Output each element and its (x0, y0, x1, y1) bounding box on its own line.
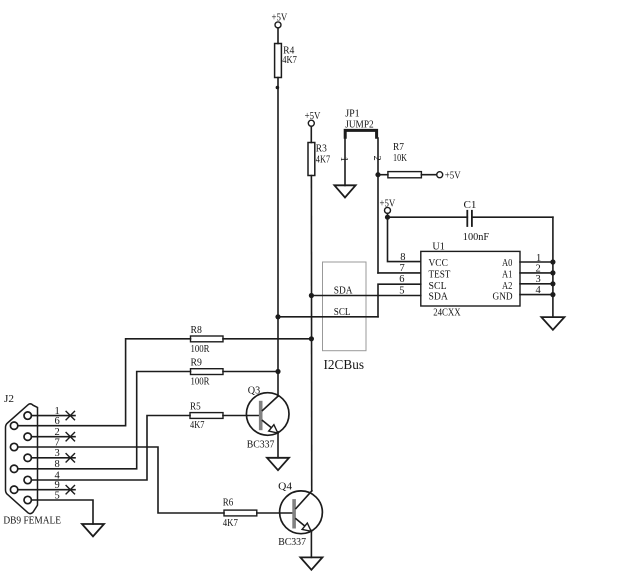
svg-text:TEST: TEST (429, 269, 451, 281)
wire JP1 pin2 down to IC TEST pin (377, 138, 379, 273)
power port +5V (above R3) (305, 110, 321, 126)
wire R9 left then down to DB9 pin8 (18, 372, 191, 469)
svg-text:U1: U1 (432, 240, 445, 252)
IC U1 24CXX body (421, 251, 520, 306)
svg-text:BC337: BC337 (247, 439, 275, 451)
pin 1 pad (J2) (24, 412, 31, 419)
ground (Q3 emitter) (267, 458, 289, 470)
wire rail to C1 left plate (388, 216, 468, 218)
wire pin5 to ground (31, 500, 93, 524)
ground (under JP1) (334, 185, 355, 197)
svg-text:6: 6 (55, 416, 60, 427)
wire R6 left then up to DB9 pin7 (18, 447, 224, 513)
wire +5V stem to rail (387, 213, 389, 217)
transistor Q4 (BC337) (280, 491, 323, 534)
node SCL junction (R4 line / SCL bus) (275, 314, 280, 319)
node A1 junction (550, 270, 555, 275)
wire Q4 emitter to ground (310, 530, 312, 557)
I2CBus annotation box (323, 262, 367, 351)
svg-text:8: 8 (400, 252, 405, 263)
resistor R3 (308, 143, 315, 176)
svg-text:R5: R5 (190, 401, 201, 413)
wire R6 right to Q4 base (257, 512, 292, 514)
pin 2 pad (J2) (24, 433, 31, 440)
wire Q3 emitter to ground (277, 432, 279, 458)
wire right ground rail vertical (552, 217, 554, 317)
no-connect X pin2 (66, 433, 74, 441)
ground (J2 pin5) (82, 524, 104, 536)
pin-end dot below R4 (276, 86, 280, 90)
svg-text:A1: A1 (502, 269, 512, 281)
pin 4 pad (J2) (24, 476, 31, 483)
wire SDA bus to U1 pin5 (311, 295, 420, 297)
wire U1 pin2 A1 to gnd rail (520, 272, 553, 274)
power port +5V (above VCC rail) (380, 197, 396, 213)
ground (Q4 emitter) (300, 557, 322, 569)
svg-text:BC337: BC337 (278, 536, 306, 548)
node A0 junction (550, 259, 555, 264)
svg-text:GND: GND (493, 291, 513, 303)
svg-text:R9: R9 (191, 357, 203, 369)
wire R4 bottom down to Q3 collector (SCL vertical) (277, 78, 279, 397)
svg-text:8: 8 (55, 459, 60, 470)
svg-text:R6: R6 (223, 497, 234, 509)
pin 8 pad (J2) (10, 465, 17, 472)
wire R5 left then down to DB9 pin4 (31, 416, 190, 481)
svg-text:Q4: Q4 (278, 480, 292, 492)
power port +5V (top, above R4) (272, 12, 288, 28)
wire R5 right to Q3 base (223, 415, 258, 417)
wire R7 right to +5V port (421, 174, 436, 176)
svg-text:7: 7 (400, 263, 405, 274)
svg-text:I2CBus: I2CBus (324, 357, 365, 372)
wire R8 left then down to DB9 pin6 (18, 339, 191, 426)
wire U1 pin4 GND to gnd rail (520, 294, 553, 296)
wire R8 right to SDA vertical (223, 338, 311, 340)
wire +5V port to R3 top (310, 126, 312, 142)
svg-text:A0: A0 (502, 257, 513, 269)
svg-text:1: 1 (338, 157, 349, 162)
pin 5 pad (J2) (24, 496, 31, 503)
svg-text:100nF: 100nF (463, 231, 489, 243)
wire VCC drop to U1 pin 8 (388, 217, 421, 261)
node R9 junction on SCL vertical (275, 369, 280, 374)
jumper JP1 body (345, 130, 376, 137)
pin 9 pad (J2) (10, 486, 17, 493)
resistor R7 (388, 172, 422, 178)
wire +5V port to R4 top (277, 28, 279, 44)
pin 3 pad (J2) (24, 454, 31, 461)
wire R9 right to SCL vertical (223, 371, 278, 373)
node junction +5V rail / VCC drop (385, 215, 390, 220)
svg-text:5: 5 (399, 285, 404, 296)
svg-text:100R: 100R (191, 343, 211, 355)
wire R7 left (378, 174, 388, 176)
wire U1 pin1 A0 to gnd rail (520, 261, 553, 263)
wire pin2 stub (31, 436, 75, 438)
svg-text:Q3: Q3 (248, 384, 261, 396)
node junction JP1 pin2 / R7 (375, 172, 380, 177)
pin 6 pad (J2) (10, 422, 17, 429)
wire C1 right plate to right rail (472, 216, 553, 218)
resistor R6 (224, 510, 257, 516)
no-connect X pin9 (66, 486, 74, 494)
svg-text:JUMP2: JUMP2 (345, 118, 374, 130)
wire pin3 stub (31, 457, 75, 459)
svg-text:4K7: 4K7 (223, 517, 239, 529)
wire U1 pin3 A2 to gnd rail (520, 283, 553, 285)
svg-text:R7: R7 (393, 141, 404, 153)
node GND junction (550, 292, 555, 297)
resistor R9 (191, 369, 224, 375)
no-connect X pin1 (66, 411, 74, 419)
resistor R4 (275, 44, 282, 78)
wire pin1 stub (31, 415, 75, 417)
svg-text:7: 7 (55, 437, 60, 448)
wire pin9 stub (18, 489, 75, 491)
svg-text:4K7: 4K7 (316, 154, 331, 166)
transistor Q3 (BC337) (246, 393, 289, 436)
wire JP1 pin1 to ground (344, 138, 346, 186)
svg-text:C1: C1 (464, 199, 477, 211)
capacitor C1 (467, 211, 472, 226)
svg-text:24CXX: 24CXX (433, 307, 461, 319)
svg-text:2: 2 (371, 156, 382, 161)
node SDA junction (R3 line / SDA bus) (309, 293, 314, 298)
svg-text:VCC: VCC (429, 257, 448, 269)
ground (right of U1) (541, 317, 564, 330)
wire TEST pin horizontal into U1 (378, 272, 421, 274)
svg-text:4K7: 4K7 (190, 419, 205, 431)
svg-text:SDA: SDA (429, 291, 448, 303)
no-connect X pin3 (66, 454, 74, 462)
wire SCL riser to U1 pin6 (378, 284, 421, 317)
svg-text:100R: 100R (191, 376, 211, 388)
power port +5V (right of R7) (437, 170, 461, 182)
svg-text:J2: J2 (4, 393, 14, 405)
pin 7 pad (J2) (10, 443, 17, 450)
resistor R8 (191, 336, 224, 342)
wire SCL bus to riser (278, 316, 378, 318)
connector J2 DB9 shell (6, 404, 38, 514)
svg-text:DB9 FEMALE: DB9 FEMALE (3, 514, 61, 526)
node R8 junction on SDA vertical (309, 336, 314, 341)
resistor R5 (190, 413, 223, 419)
svg-text:10K: 10K (393, 152, 407, 164)
svg-text:R8: R8 (191, 324, 203, 336)
svg-text:4K7: 4K7 (282, 54, 297, 66)
node A2 junction (550, 281, 555, 286)
svg-text:+5V: +5V (445, 170, 461, 182)
wire R3 bottom down to Q4 collector (SDA vertical) (310, 176, 312, 492)
